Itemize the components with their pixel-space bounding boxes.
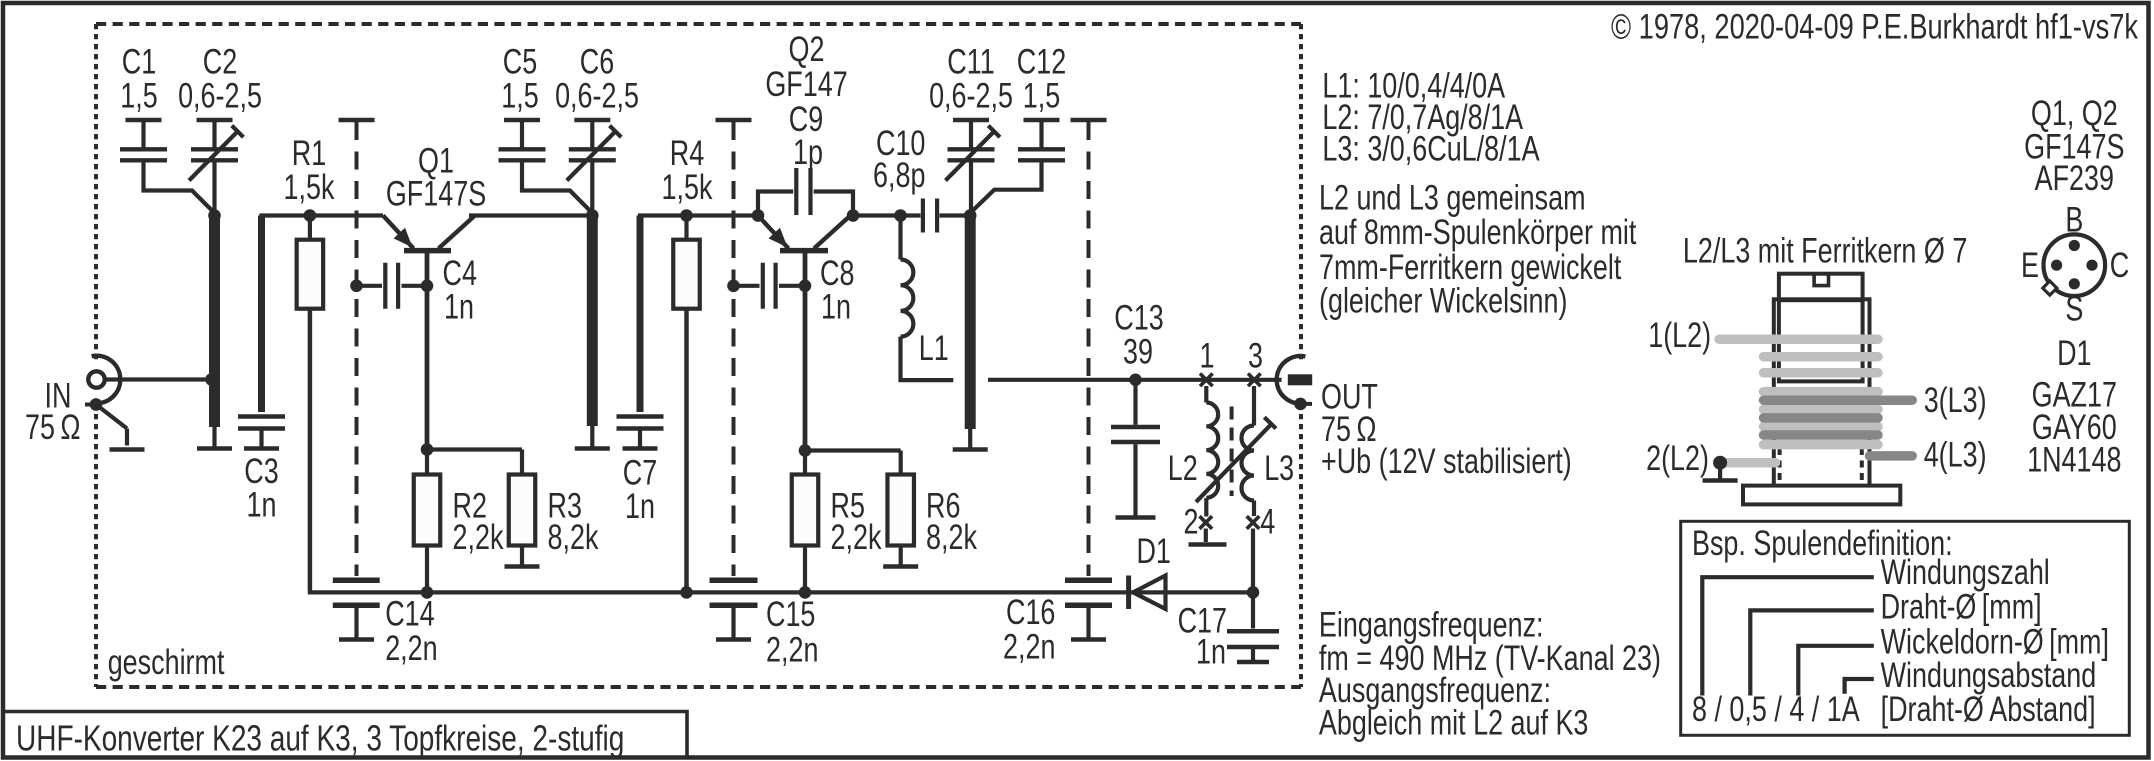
svg-text:0,6-2,5: 0,6-2,5 [555, 76, 639, 115]
tuning arrow L2/L3 [1196, 424, 1272, 502]
svg-text:1: 1 [1200, 336, 1215, 375]
label L2 [1168, 449, 1198, 488]
svg-text:8,2k: 8,2k [926, 518, 977, 557]
svg-text:L2 und L3 gemeinsam: L2 und L3 gemeinsam [1319, 178, 1586, 217]
ground C3 [259, 429, 263, 449]
resistor R6 8,2k [805, 448, 901, 452]
svg-text:C15: C15 [766, 595, 815, 634]
title box [3, 712, 687, 758]
capacitor C12 [1024, 118, 1060, 123]
junction IN wire / resonator 1 [205, 373, 218, 386]
label C14 2,2n [385, 594, 434, 633]
svg-text:AF239: AF239 [2035, 159, 2114, 198]
connector IN (coax) [78, 361, 116, 399]
capacitor C5 [504, 118, 540, 123]
label C3 1n [244, 452, 278, 491]
svg-text:0,6-2,5: 0,6-2,5 [178, 76, 262, 115]
ground R3 [520, 546, 524, 567]
svg-text:1n: 1n [821, 287, 851, 326]
ground resonator 2 [590, 426, 594, 449]
label OUT [1321, 377, 1378, 416]
svg-text:L2/L3 mit Ferritkern Ø 7: L2/L3 mit Ferritkern Ø 7 [1683, 231, 1967, 270]
junction resonator 1 top [208, 209, 221, 222]
note L2 L3 winding [1319, 178, 1586, 217]
coil former drawing [1779, 274, 1863, 301]
wire base rail stage 2 [638, 213, 758, 217]
label +Ub [1321, 442, 1572, 481]
label Q2 GF147 [789, 30, 825, 69]
wire IN to resonator 1 [104, 377, 209, 381]
capacitor C15 2,2n (feedthrough) [710, 577, 758, 583]
svg-text:© 1978, 2020-04-09 P.E.Burkhar: © 1978, 2020-04-09 P.E.Burkhardt hf1-vs7… [1611, 6, 2138, 46]
connector OUT (coax) [1282, 361, 1320, 399]
label C13 39 [1114, 298, 1163, 337]
shield partition 2 (dashed) [732, 122, 736, 576]
pin label E [2021, 246, 2039, 285]
resonator line 1 (Topfkreis) [209, 216, 220, 428]
inductor L2 [1204, 386, 1208, 403]
title text [16, 718, 624, 758]
pinout Q1 Q2 header [2031, 94, 2118, 133]
svg-text:1,5: 1,5 [501, 76, 538, 115]
inductor L3 [1252, 386, 1256, 426]
pin label C [2110, 246, 2129, 285]
capacitor C11 (trimmer) [953, 118, 989, 123]
svg-text:2,2n: 2,2n [1003, 627, 1055, 666]
tree Windungsabstand [1845, 679, 1874, 694]
svg-text:75 Ω: 75 Ω [25, 407, 80, 446]
svg-text:1,5k: 1,5k [284, 168, 335, 207]
capacitor C9 1p (feedback loop) [758, 192, 793, 216]
svg-text:0,6-2,5: 0,6-2,5 [929, 76, 1013, 115]
resistor R1 1,5k [304, 209, 317, 222]
label D1 [1136, 532, 1170, 571]
svg-text:[Draht-Ø Abstand]: [Draht-Ø Abstand] [1881, 690, 2096, 729]
label 3(L3) [1924, 381, 1987, 420]
shield enclosure dashed frame (geschirmt) [96, 22, 1301, 26]
svg-text:D1: D1 [2057, 334, 2091, 373]
wire R4 bottom to supply rail [684, 309, 689, 593]
pin label B [2065, 200, 2083, 239]
capacitor C2 (trimmer) [197, 118, 233, 123]
ground IN [96, 405, 127, 429]
svg-text:1,5: 1,5 [120, 76, 157, 115]
label 4(L3) [1924, 435, 1987, 474]
label C5 1,5 [503, 42, 537, 81]
svg-text:B: B [2065, 200, 2083, 239]
svg-text:2,2k: 2,2k [831, 518, 882, 557]
note D1 types [2057, 334, 2091, 373]
label L1 [919, 329, 949, 368]
copyright text [1611, 6, 2138, 46]
capacitor C16 2,2n (feedthrough) [1065, 577, 1112, 583]
tree Draht [1750, 610, 1874, 695]
svg-text:GF147: GF147 [765, 64, 847, 103]
svg-text:Abgleich mit L2 auf K3: Abgleich mit L2 auf K3 [1319, 703, 1589, 742]
svg-text:2,2k: 2,2k [453, 518, 504, 557]
svg-text:4(L3): 4(L3) [1924, 435, 1987, 474]
capacitor C14 2,2n (feedthrough) [333, 577, 380, 583]
transistor Q1 GF147S [383, 216, 414, 249]
capacitor C4 1n [350, 280, 363, 293]
wire R1 bottom to supply rail [308, 309, 313, 591]
tree Wickeldorn [1798, 646, 1874, 696]
svg-text:2(L2): 2(L2) [1646, 439, 1709, 478]
wire Q2 base lead [803, 252, 808, 451]
label C17 1n [1178, 601, 1227, 640]
resistor R3 8,2k [427, 447, 522, 451]
resistor R5 2,2k [799, 444, 812, 457]
wire base rail stage 1 [259, 213, 383, 217]
svg-text:L3: 3/0,6CuL/8/1A: L3: 3/0,6CuL/8/1A [1322, 129, 1539, 168]
capacitor C3 1n [258, 216, 265, 413]
svg-text:8,2k: 8,2k [548, 518, 599, 557]
junction resonator 2 top [586, 209, 599, 222]
ground resonator 3 [968, 429, 972, 450]
label 1(L2) [1648, 316, 1711, 355]
svg-text:3: 3 [1248, 336, 1263, 375]
svg-text:auf 8mm-Spulenkörper mit: auf 8mm-Spulenkörper mit [1319, 213, 1637, 252]
svg-text:3(L3): 3(L3) [1924, 381, 1987, 420]
label C16 2,2n [1006, 593, 1055, 632]
ground C13 [1133, 444, 1137, 517]
svg-text:L1: L1 [919, 329, 949, 368]
svg-text:D1: D1 [1136, 532, 1170, 571]
note Eingangsfrequenz [1319, 605, 1544, 644]
svg-text:GF147S: GF147S [386, 174, 486, 213]
pin label S [2065, 289, 2083, 328]
node IN shield [85, 403, 96, 407]
note coil data L1 L2 L3 [1322, 66, 1505, 105]
svg-text:L3: L3 [1264, 449, 1294, 488]
label L2/L3 mit Ferritkern [1683, 231, 1967, 270]
label C6 0,6-2,5 [580, 42, 614, 81]
svg-text:S: S [2065, 289, 2083, 328]
label C2 0,6-2,5 [203, 42, 237, 81]
resistor R2 2,2k [421, 443, 434, 456]
shield partition 3 (dashed) [1087, 122, 1091, 576]
ground L2 [1204, 529, 1208, 543]
svg-text:1,5k: 1,5k [662, 168, 713, 207]
svg-text:1p: 1p [793, 133, 823, 172]
label C11 0,6-2,5 [947, 42, 994, 81]
wire Q1 collector rail to resonator 2 [469, 213, 592, 217]
svg-text:2: 2 [1184, 502, 1199, 541]
svg-text:8 / 0,5 / 4 / 1A: 8 / 0,5 / 4 / 1A [1692, 690, 1860, 729]
label geschirmt [108, 643, 225, 682]
wire L3 to supply rail [1251, 529, 1255, 593]
label 2(L2) [1646, 439, 1709, 478]
junction resonator 3 top [964, 209, 977, 222]
svg-text:39: 39 [1123, 332, 1153, 371]
svg-text:1n: 1n [444, 287, 474, 326]
svg-text:4: 4 [1260, 502, 1275, 541]
pinout circle [2044, 234, 2106, 296]
diode D1 [1126, 576, 1131, 610]
terminal 2 (L2) [1200, 516, 1213, 529]
svg-text:C14: C14 [385, 594, 434, 633]
label IN [45, 376, 72, 415]
label 75 Ohm [25, 407, 80, 446]
wire output line [988, 378, 1288, 382]
svg-text:1n: 1n [247, 485, 277, 524]
label L3 [1264, 449, 1294, 488]
svg-text:UHF-Konverter K23 auf K3, 3 To: UHF-Konverter K23 auf K3, 3 Topfkreise, … [16, 718, 624, 758]
capacitor C13 39 [1129, 374, 1142, 387]
wire Q1 base lead [425, 252, 430, 450]
label 75 Ohm out [1321, 410, 1376, 449]
label C4 1n [443, 254, 477, 293]
capacitor C7 1n [637, 216, 644, 413]
inductor L1 [898, 216, 902, 260]
label C8 1n [820, 254, 854, 293]
terminal 3 (L3) [1248, 374, 1261, 387]
svg-text:1,5: 1,5 [1023, 76, 1060, 115]
capacitor C10 6,8p [901, 213, 921, 217]
svg-text:6,8p: 6,8p [873, 156, 925, 195]
lead 4(L3) [1870, 451, 1913, 461]
svg-text:C16: C16 [1006, 593, 1055, 632]
resonator line 2 (Topfkreis) [587, 216, 598, 427]
supply rail (bottom) [310, 591, 1253, 593]
transistor Q2 GF147 [758, 216, 789, 249]
ground resonator 1 [212, 427, 216, 449]
capacitor C1 [126, 118, 162, 123]
winding L2 turns (light) [1719, 335, 1878, 345]
capacitor C8 1n [727, 280, 740, 293]
ground lead 2 [1718, 463, 1722, 481]
resonator line 3 (Topfkreis) [965, 216, 976, 430]
svg-text:C: C [2110, 246, 2129, 285]
svg-text:1n: 1n [1196, 632, 1226, 671]
wire Q2 collector to C10 [851, 213, 901, 217]
svg-text:Q2: Q2 [789, 30, 825, 69]
label C9 1p [789, 99, 823, 138]
svg-text:Draht-Ø [mm]: Draht-Ø [mm] [1881, 587, 2042, 626]
label C7 1n [623, 453, 657, 492]
lead 2(L2) [1722, 458, 1776, 468]
label C15 2,2n [766, 595, 815, 634]
svg-text:+Ub (12V stabilisiert): +Ub (12V stabilisiert) [1321, 442, 1572, 481]
label C10 6,8p [876, 124, 925, 163]
ferrite core coupling (dashed) [1230, 407, 1234, 497]
label C1 1,5 [122, 42, 156, 81]
capacitor C6 (trimmer) [574, 118, 610, 123]
svg-text:1(L2): 1(L2) [1648, 316, 1711, 355]
ground C7 [638, 429, 642, 449]
svg-text:L2: L2 [1168, 449, 1198, 488]
svg-text:1N4148: 1N4148 [2027, 440, 2121, 479]
label Q1 GF147S [418, 141, 454, 180]
svg-text:E: E [2021, 246, 2039, 285]
box Spulendefinition [1681, 521, 2130, 735]
winding L3 turns (dark) [1764, 395, 1913, 405]
resistor R4 1,5k [680, 209, 693, 222]
svg-text:2,2n: 2,2n [766, 630, 818, 669]
label 8/0,5/4/1A [1692, 690, 1860, 729]
terminal 4 (L3) [1247, 516, 1260, 529]
label C12 1,5 [1017, 42, 1066, 81]
svg-text:2,2n: 2,2n [385, 629, 437, 668]
tree Windungszahl [1702, 577, 1874, 695]
svg-text:(gleicher Wickelsinn): (gleicher Wickelsinn) [1319, 281, 1567, 320]
ground C17 [1251, 649, 1255, 662]
ground R6 [899, 546, 903, 567]
svg-text:1n: 1n [625, 487, 655, 526]
capacitor C17 1n [1251, 592, 1255, 628]
shield partition 1 (dashed) [355, 122, 359, 576]
svg-text:geschirmt: geschirmt [108, 643, 225, 682]
terminal 1 (L2) [1200, 374, 1213, 387]
